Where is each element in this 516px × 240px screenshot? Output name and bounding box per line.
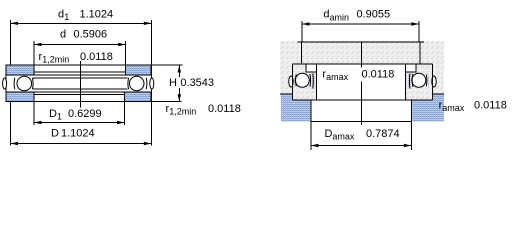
svg-text:amax: amax	[442, 103, 465, 113]
svg-text:D: D	[51, 128, 59, 140]
ball right-figure left	[295, 73, 309, 87]
washer outer rim ellipse rf-left	[289, 76, 293, 87]
groove bracket near box right	[408, 74, 411, 89]
arrow d right	[118, 43, 126, 46]
shaft and housing ghost hatch area	[280, 41, 444, 100]
arrow D1 left	[34, 121, 42, 124]
wire lower washer top face	[34, 91, 125, 93]
ball right	[129, 76, 144, 91]
svg-text:0.0118: 0.0118	[80, 51, 113, 63]
washer SW upper-right section	[126, 65, 152, 75]
wire D dimension line	[11, 143, 152, 145]
svg-text:amax: amax	[326, 72, 349, 82]
wire upper washer race shoulder	[34, 71, 126, 73]
washer outer rim ellipse rf-right	[432, 76, 436, 87]
wire D1 extension left	[33, 92, 35, 125]
node axis centerline left figure	[79, 61, 81, 108]
wire Da extension left	[310, 121, 312, 150]
wire washer bottom edge + H extension	[6, 101, 182, 103]
housing block left	[281, 94, 293, 121]
wire cage upper line	[33, 77, 128, 79]
wire housing shoulder top right	[433, 93, 444, 95]
washer section bit right of rf-right ball	[426, 75, 429, 88]
wire bearing bottom face right figure	[293, 99, 433, 101]
svg-text:1.1024: 1.1024	[80, 9, 114, 21]
svg-text:amax: amax	[332, 132, 355, 142]
ball right-figure right	[412, 73, 426, 87]
arrow D right	[144, 142, 152, 145]
svg-text:0.7874: 0.7874	[366, 128, 400, 140]
wire d1 extension right	[150, 20, 152, 65]
groove arc left of rf-left ball	[295, 75, 298, 87]
svg-text:0.0118: 0.0118	[208, 103, 241, 115]
washer HW lower-right section	[125, 92, 152, 102]
wire D1 dimension line	[34, 122, 125, 124]
housing seat boss upper (white)	[317, 64, 406, 100]
housing strip below-left	[293, 100, 312, 121]
wire d1 dimension line	[11, 22, 152, 24]
wire d extension left	[33, 41, 35, 75]
groove arc left of right ball	[127, 78, 130, 89]
wire D extension right	[150, 102, 152, 146]
arrow da right	[411, 22, 419, 25]
wire upper washer bottom face	[34, 74, 126, 76]
svg-text:amin: amin	[330, 13, 350, 23]
washer outer rim ellipse left	[3, 78, 7, 89]
svg-text:d: d	[60, 29, 66, 41]
wire D extension left	[10, 102, 12, 146]
arrow H bottom	[178, 94, 181, 102]
svg-text:1.1024: 1.1024	[61, 128, 95, 140]
wire shaft block left side	[301, 42, 303, 64]
svg-text:0.6299: 0.6299	[68, 108, 102, 120]
svg-text:0.9055: 0.9055	[357, 9, 391, 21]
wire d extension right	[125, 41, 127, 75]
wire cage lower line	[33, 88, 128, 90]
wire bearing right outer edge rf	[432, 64, 434, 100]
svg-text:1: 1	[57, 111, 62, 121]
wire da extension left	[301, 21, 303, 42]
wire da dimension line	[302, 23, 419, 25]
svg-text:D: D	[49, 108, 57, 120]
groove arc right of rf-left ball	[309, 74, 312, 87]
groove arc right of rf-right ball	[425, 75, 428, 87]
wire Da dimension line	[311, 145, 411, 147]
node axis centerline right figure	[360, 42, 362, 126]
shaft washer bore notch left	[306, 64, 317, 72]
wire housing shoulder top left	[280, 93, 293, 95]
svg-text:1,2min: 1,2min	[42, 55, 69, 65]
wire H dimension line	[178, 65, 180, 102]
housing strip below-right	[411, 100, 432, 121]
wire lower washer race shoulder	[34, 94, 125, 96]
arrow D left	[11, 142, 19, 145]
wire d1 extension left	[10, 20, 12, 65]
arrow D1 right	[117, 121, 125, 124]
wire d dimension line	[34, 44, 126, 46]
svg-text:0.0118: 0.0118	[474, 100, 507, 112]
arrow d1 left	[11, 22, 19, 25]
arrow Da left	[311, 144, 319, 147]
housing block right	[433, 94, 444, 121]
wire washer left outer edge	[5, 65, 7, 102]
washer outer rim ellipse right	[150, 78, 154, 89]
shaft washer bore notch right	[406, 64, 417, 72]
svg-text:0.0118: 0.0118	[362, 69, 395, 81]
groove arc right of left ball	[31, 78, 34, 89]
svg-text:1: 1	[64, 12, 69, 22]
label ramax box 0.0118	[319, 68, 396, 82]
groove arc left of rf-right ball	[411, 74, 414, 87]
housing seat boss lower (white)	[311, 100, 411, 121]
groove arc right of right ball	[145, 78, 148, 89]
groove bracket near box left	[312, 74, 315, 89]
svg-text:D: D	[325, 128, 333, 140]
groove arc left of left ball	[13, 78, 16, 89]
wire Da extension right	[410, 121, 412, 150]
wire da extension right	[418, 21, 420, 42]
washer SW upper-left section	[6, 65, 34, 75]
arrow da left	[302, 22, 310, 25]
wire shaft block right side	[419, 42, 421, 64]
washer HW lower-left section	[6, 92, 34, 102]
arrow H top	[178, 65, 181, 73]
arrow d left	[34, 43, 42, 46]
washer section bit left of box	[310, 74, 316, 89]
svg-text:0.3543: 0.3543	[180, 77, 214, 89]
wire washer right outer edge	[150, 65, 152, 102]
svg-text:1,2min: 1,2min	[169, 107, 196, 117]
svg-text:0.5906: 0.5906	[74, 29, 108, 41]
arrow d1 right	[144, 22, 152, 25]
ball left	[17, 76, 32, 91]
wire shaft block top	[298, 41, 425, 43]
washer section bit left of rf-left ball	[293, 75, 296, 88]
wire bearing top face right figure	[293, 63, 433, 65]
arrow Da right	[404, 144, 412, 147]
label H 0.3543	[167, 77, 217, 88]
washer section bit right of box	[407, 74, 413, 89]
wire washer top edge + H extension	[6, 64, 183, 66]
wire D1 extension right	[124, 92, 126, 125]
wire bearing left outer edge rf	[292, 64, 294, 100]
svg-text:H: H	[169, 77, 177, 89]
